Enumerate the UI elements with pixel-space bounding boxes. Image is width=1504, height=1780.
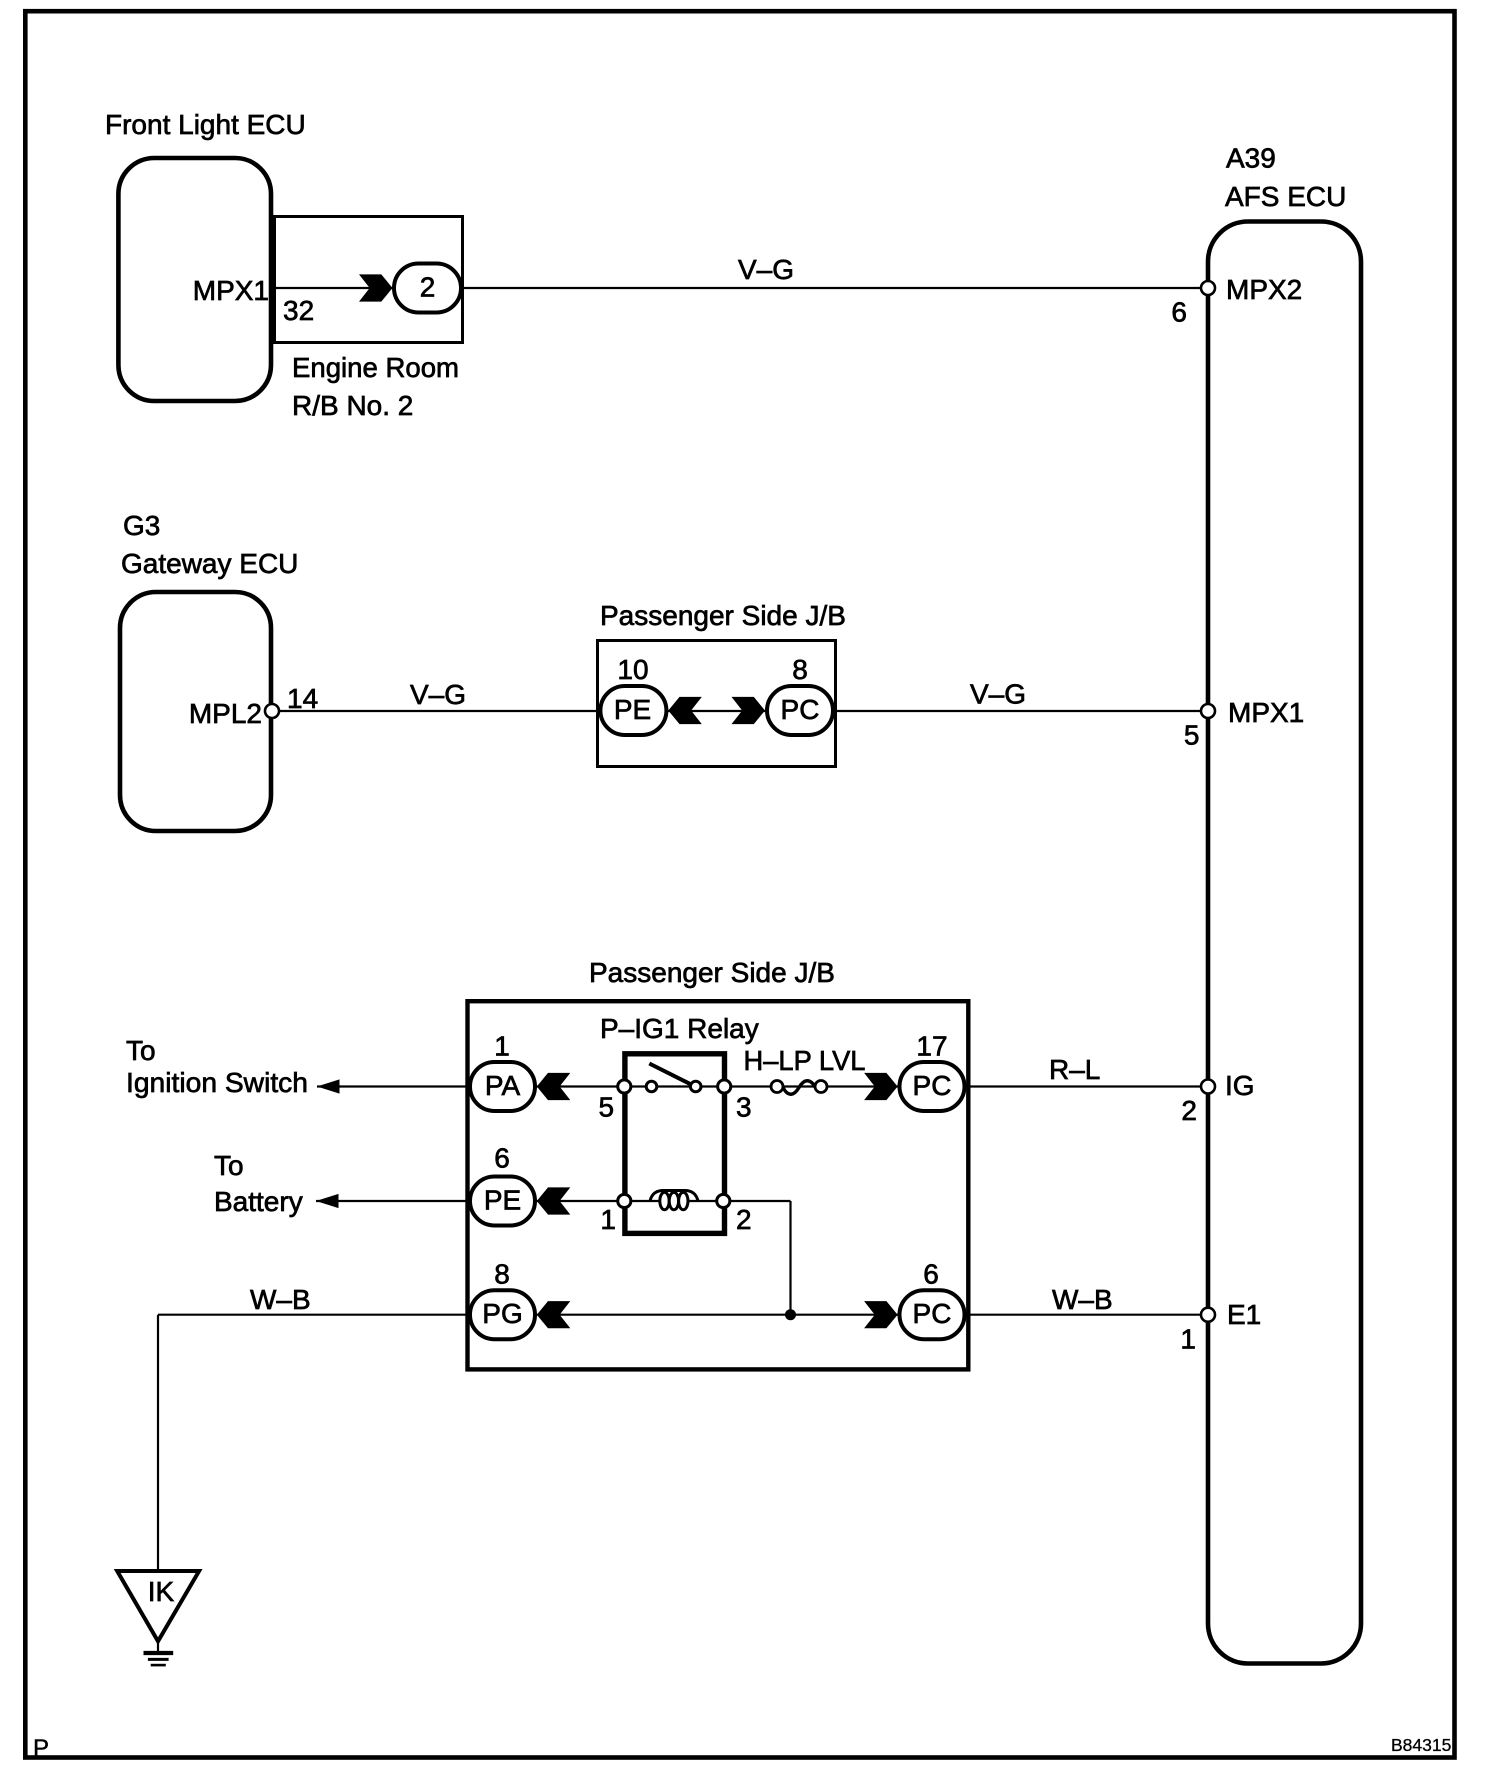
svg-text:2: 2 — [1181, 1095, 1197, 1126]
svg-text:PC: PC — [781, 694, 820, 725]
svg-text:AFS ECU: AFS ECU — [1225, 181, 1346, 212]
svg-text:H–LP LVL: H–LP LVL — [744, 1045, 866, 1076]
svg-text:W–B: W–B — [1052, 1284, 1113, 1315]
svg-text:IK: IK — [148, 1576, 175, 1607]
svg-text:1: 1 — [1180, 1324, 1196, 1355]
svg-text:IG: IG — [1225, 1070, 1255, 1101]
svg-text:V–G: V–G — [970, 679, 1026, 710]
svg-text:MPX1: MPX1 — [1228, 697, 1304, 728]
svg-text:14: 14 — [287, 683, 318, 714]
svg-text:MPX2: MPX2 — [1226, 274, 1302, 305]
svg-text:6: 6 — [923, 1259, 939, 1290]
svg-text:Ignition Switch: Ignition Switch — [126, 1067, 308, 1098]
svg-text:PE: PE — [614, 694, 651, 725]
svg-text:PC: PC — [913, 1070, 952, 1101]
svg-text:6: 6 — [494, 1143, 510, 1174]
svg-text:1: 1 — [600, 1204, 616, 1235]
svg-text:P: P — [33, 1735, 49, 1762]
svg-text:E1: E1 — [1227, 1299, 1261, 1330]
svg-text:G3: G3 — [123, 510, 160, 541]
svg-text:Engine Room: Engine Room — [292, 352, 459, 383]
svg-text:V–G: V–G — [738, 254, 794, 285]
svg-text:6: 6 — [1171, 297, 1187, 328]
svg-text:PC: PC — [913, 1298, 952, 1329]
svg-text:Passenger Side J/B: Passenger Side J/B — [589, 957, 835, 988]
svg-text:R/B No. 2: R/B No. 2 — [292, 390, 413, 421]
svg-text:PG: PG — [482, 1298, 522, 1329]
svg-text:Passenger Side J/B: Passenger Side J/B — [600, 600, 846, 631]
svg-text:MPX1: MPX1 — [193, 275, 269, 306]
svg-text:5: 5 — [1184, 720, 1200, 751]
svg-text:10: 10 — [617, 654, 648, 685]
svg-text:PA: PA — [485, 1070, 521, 1101]
svg-text:PE: PE — [484, 1185, 521, 1216]
svg-text:8: 8 — [494, 1259, 510, 1290]
svg-text:To: To — [126, 1035, 156, 1066]
svg-text:8: 8 — [792, 654, 808, 685]
svg-text:2: 2 — [420, 272, 436, 303]
svg-text:To: To — [214, 1150, 244, 1181]
svg-text:17: 17 — [916, 1031, 947, 1062]
svg-text:MPL2: MPL2 — [189, 698, 262, 729]
svg-text:5: 5 — [599, 1092, 615, 1123]
svg-text:32: 32 — [283, 295, 314, 326]
svg-text:1: 1 — [494, 1031, 510, 1062]
svg-text:2: 2 — [736, 1204, 752, 1235]
svg-text:W–B: W–B — [250, 1284, 311, 1315]
svg-text:B84315: B84315 — [1391, 1735, 1451, 1755]
svg-text:Gateway ECU: Gateway ECU — [121, 548, 298, 579]
svg-text:R–L: R–L — [1049, 1054, 1100, 1085]
svg-text:3: 3 — [736, 1092, 752, 1123]
svg-text:A39: A39 — [1226, 143, 1276, 174]
svg-text:Front Light ECU: Front Light ECU — [105, 109, 306, 140]
svg-text:V–G: V–G — [410, 679, 466, 710]
svg-text:P–IG1 Relay: P–IG1 Relay — [600, 1013, 759, 1044]
svg-text:Battery: Battery — [214, 1186, 303, 1217]
